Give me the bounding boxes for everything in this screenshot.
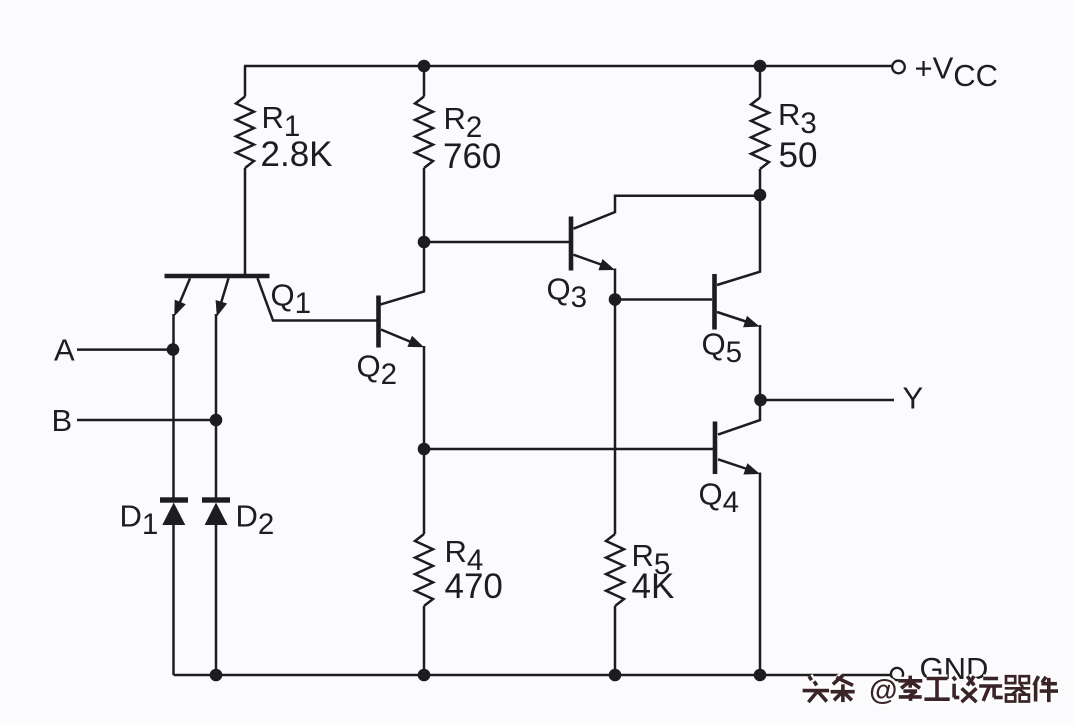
wire R2 bottom stem [423,168,426,242]
diode D2 triangle [205,503,228,526]
node ground rail / D2 [210,669,223,682]
wire Q4 collector [718,402,760,435]
wire Q2 emitter down [423,346,426,449]
resistor R5 [606,534,624,606]
wire D1 to ground rail [172,525,175,675]
transistor Q4 emitter line [718,459,753,471]
wire Q2 collector [381,244,425,305]
svg-text:A: A [54,333,75,368]
svg-text:@: @ [869,675,897,707]
wire R1 top stem [244,66,247,97]
transistor Q1 base bar [165,274,270,279]
node Q3 emitter / Q5 base / R5 junction [609,293,622,306]
diode D2 cathode bar [202,497,230,502]
wire top VCC rail [244,65,892,68]
wire Q3 emitter down [614,269,617,300]
wire R4 bottom stem [423,606,426,675]
transistor Q5 emitter arrow [743,316,760,327]
transistor Q4 emitter arrow [743,463,760,474]
svg-text:760: 760 [443,137,501,176]
node VCC rail / R3 junction [754,60,767,73]
resistor R4 [415,534,433,606]
transistor Q2 emitter line [381,330,417,345]
wire R1 bottom stem to Q1 base [244,168,247,275]
wire output Y [760,399,894,402]
node VCC rail / R2 junction [418,60,431,73]
wire Q3 base [424,241,569,244]
wire R3 top stem [759,66,762,98]
svg-text:B: B [52,403,73,438]
wire Q4 base from Q2 emitter node [424,448,713,451]
node Y junction [754,394,767,407]
wire R5 top stem [614,300,617,535]
node B junction [210,414,223,427]
terminal +VCC open circle [892,61,905,74]
wire input B [77,419,216,422]
resistor R2 [415,97,433,169]
wire Q5 base [615,298,712,301]
wire input A [77,348,173,351]
node R2 bottom / Q2 collector / Q3 base junction [418,236,431,249]
node A junction [167,343,180,356]
transistor Q3 emitter arrow [598,259,615,270]
transistor Q1 emitter 2 arrow [216,300,228,317]
svg-text:4K: 4K [632,567,675,606]
svg-text:Y: Y [903,381,924,416]
wire ground rail [174,674,891,677]
svg-text:470: 470 [445,567,503,606]
node ground rail / Q4 emitter [754,669,767,682]
wire Q4 emitter down to ground rail [759,473,762,676]
diode D1 triangle [162,503,185,526]
transistor Q2 emitter arrow [407,336,424,348]
transistor Q1 emitter 2 line [220,278,229,308]
transistor Q5 bar [712,274,717,330]
transistor Q4 bar [713,422,718,475]
node ground rail / R5 [609,669,622,682]
wire R4 top stem [423,449,426,534]
resistor R3 [751,98,769,170]
wire R3 bottom stem [759,169,762,195]
wire Q5 emitter down to Y node [759,325,762,400]
transistor Q3 bar [569,217,574,271]
watermark 头条 @李工谈元器件 [809,676,812,680]
transistor Q5 emitter line [717,312,752,324]
wire Q1 emitter 2 down [215,314,218,498]
transistor Q1 emitter 1 line [178,278,191,308]
transistor Q2 bar [376,296,381,348]
wire R5 bottom stem [614,606,617,675]
wire Q5 collector [717,197,760,285]
node R3 bottom / Q3 collector / Q5 collector junction [754,189,767,202]
resistor R1 [236,97,254,169]
wire R2 top stem [423,66,426,97]
diode D1 cathode bar [160,497,188,502]
svg-text:2.8K: 2.8K [261,135,333,174]
wire Q3 collector to R3 node [574,196,761,229]
wire Q1 emitter 1 down [172,314,175,498]
wire D2 to ground rail [215,525,218,675]
node Q2 emitter / Q4 base / R4 junction [418,443,431,456]
node ground rail / R4 [418,669,431,682]
transistor Q3 emitter line [574,255,609,267]
terminal GND open circle [891,668,903,680]
transistor Q1 emitter 1 arrow [174,300,186,317]
svg-text:50: 50 [779,136,818,175]
wire Q1 collector to Q2 base [258,278,378,320]
